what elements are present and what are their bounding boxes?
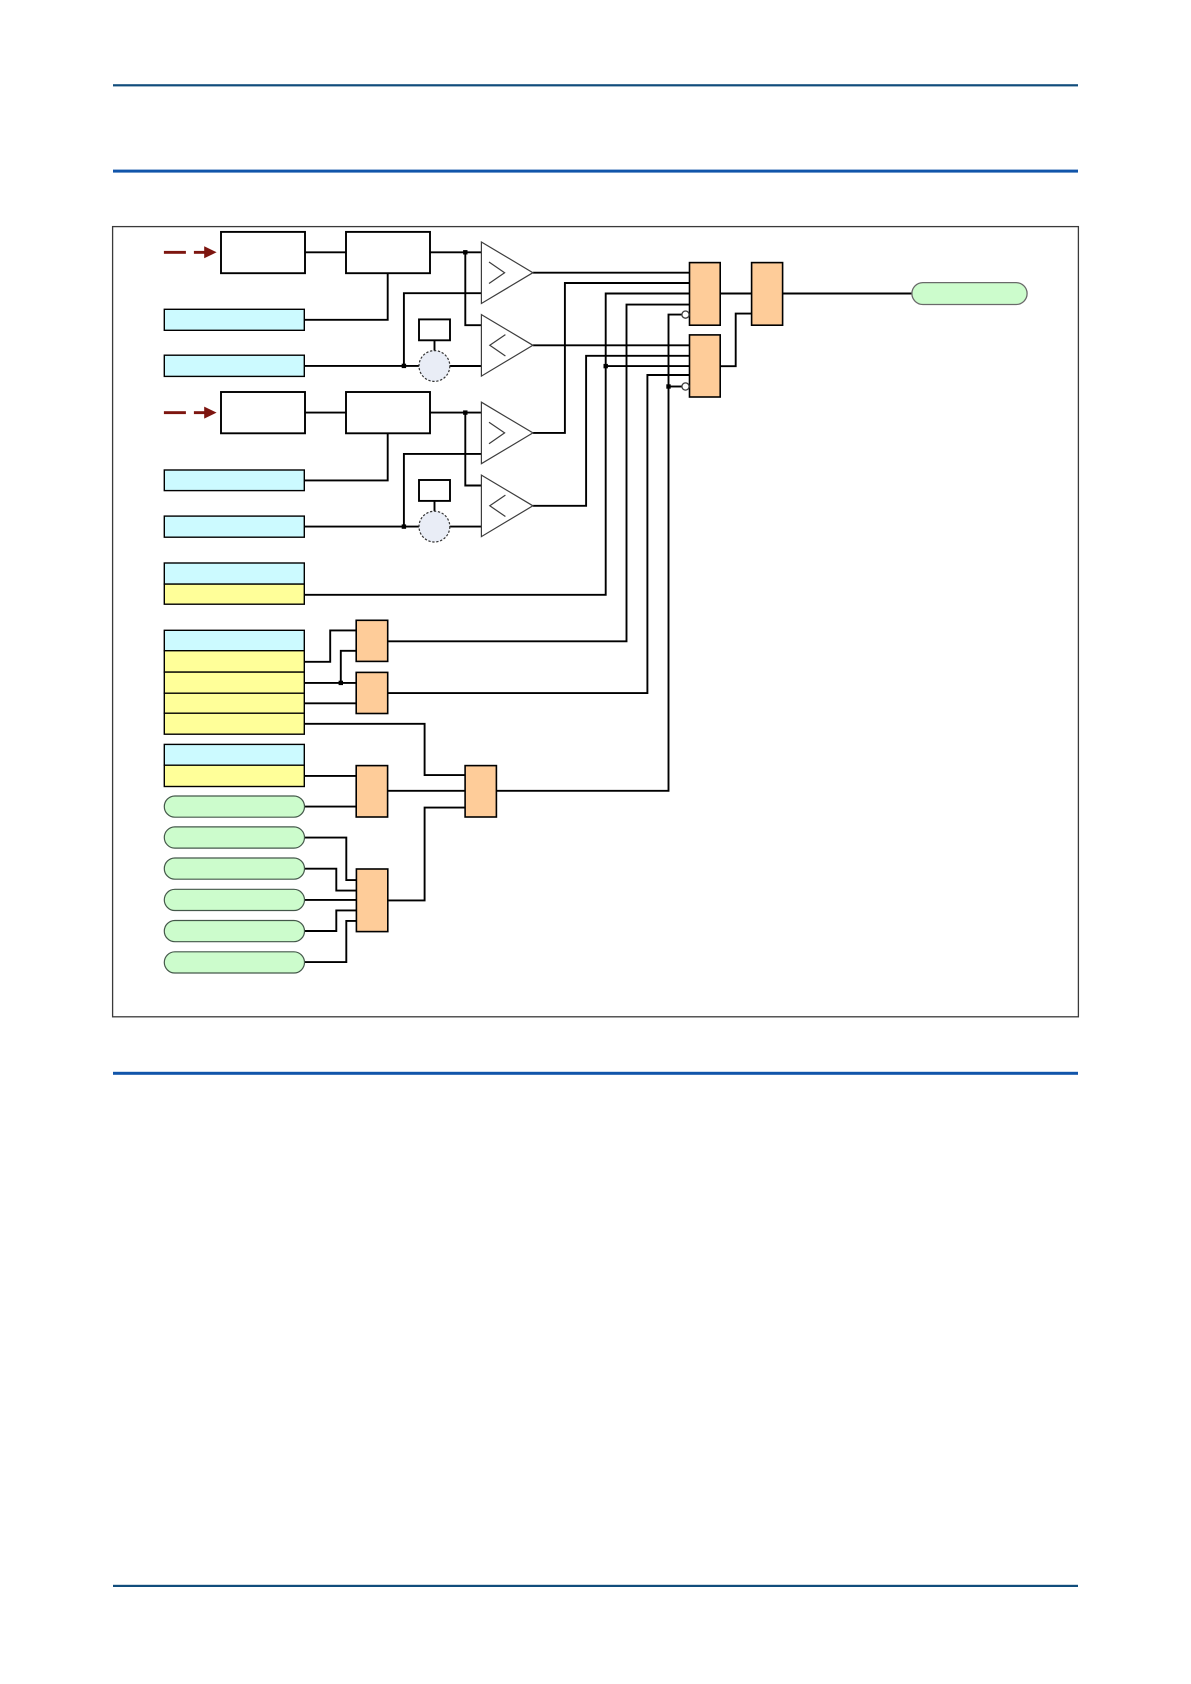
stack cyan row7 [164,630,304,650]
flag pill2 [164,827,304,848]
footer thick blue rule [113,1072,1078,1075]
gate orange3 [752,263,783,326]
junction node 2 [402,364,406,368]
wire comparator3 output bus to orange1 in2 [533,283,690,433]
wire node to comparator 2 top input [465,252,481,325]
wire yellow row8 to orangeA in1 [304,630,356,661]
wire box2 to comparator 1 [430,251,481,253]
wire orangeD output bus to inverter inputs [496,315,682,791]
result pill [912,283,1027,305]
wire circle2 to comparator 4 [450,526,482,528]
pair2 yellow row13 [164,765,304,786]
diagram frame [113,227,1079,1017]
wire box3 to box4 [305,412,346,414]
wire node to comparator 1 lower input [404,293,482,366]
junction node 3 [463,410,467,414]
box B1 [221,232,305,273]
comparator 1 (greater) [481,242,533,304]
comparator 3 (greater) [481,402,533,464]
wire orange3 output to result pill [783,293,912,295]
wire pill6 to orangeE in5 [305,921,357,962]
wire orangeC output to orangeD in2 [388,790,466,792]
wire node to comparator 4 top input [465,413,481,486]
flag pill6 [164,952,304,973]
register cyan1 [164,309,304,330]
wire cyan1 to box2 bottom [304,273,387,320]
wire yellow row9 to orangeB in1 [304,682,356,684]
wire comparator4 output bus to orange2 in2 [533,356,690,506]
wire pill2 to orangeE in1 [305,838,357,881]
circle2 [419,511,450,542]
wire comparator2 output to orange2 in1 [533,344,690,346]
wire yellow row13 to orangeC in1 [304,775,356,777]
inverter bubble orange2 [682,383,689,390]
arrow input 1 [164,246,217,258]
gate orangeE [356,869,387,932]
junction node 1 [463,250,467,254]
wire pill4 to orangeE in3 [305,899,357,901]
comparator 4 (less) [481,475,533,536]
wire pill3 to orangeE in2 [305,869,357,891]
wire node to comparator 3 lower input [404,454,482,527]
arrow input 2 [164,407,217,419]
box B2 [346,232,430,273]
junction node 6 [666,384,670,388]
pair2 cyan row12 [164,744,304,765]
stack yellow row9 [164,672,304,693]
wire yellow row11 to orangeD in1 [304,724,465,775]
flag pill4 [164,889,304,910]
wire box1 to box2 [305,251,346,253]
flag pill1 [164,796,304,817]
wire orange2 output to orange3 in2 [720,314,751,367]
stack yellow row11 [164,713,304,734]
wire comparator1 output to orange1 in1 [533,272,690,274]
wire smallbox2 to circle2 [434,501,436,511]
wire orangeE output to orangeD in3 [388,808,465,901]
register cyan3 [164,470,304,491]
smallbox1 [419,319,450,340]
wire node to orange2 inverter [669,386,682,388]
wire orange1 output to orange3 in1 [720,293,751,295]
wire pill1 to orangeC in2 [305,806,357,808]
inverter bubble orange1 [682,311,689,318]
register cyan4 [164,516,304,537]
gate orangeA [356,620,388,661]
register cyan2 [164,355,304,376]
wire smallbox1 to circle1 [434,340,436,350]
wire circle1 to comparator 2 [450,365,482,367]
stack yellow row8 [164,651,304,672]
flag pill5 [164,921,304,942]
wire box4 to comparator 3 [430,412,481,414]
stack yellow row10 [164,693,304,713]
junction node 4 [402,524,406,528]
smallbox2 [419,480,450,501]
header thick blue rule [113,170,1078,173]
gate orangeB [356,672,388,713]
wire cyan4 to circle2 [304,526,419,528]
box B4 [346,392,430,433]
gate orange2 [690,335,721,397]
header thin blue rule [113,84,1078,86]
wire branch to orange2 in3 [606,365,690,367]
wire branch to orangeA in2 [341,651,356,683]
junction node 7 [339,681,343,685]
footer thin blue rule [113,1585,1078,1587]
box B3 [221,392,305,433]
wire orangeA output bus to orange1 in4 [388,305,690,642]
pair1 cyan row5 [164,563,304,584]
wire cyan2 to circle1 [304,365,419,367]
gate orange1 [690,263,721,326]
wire cyan3 to box4 bottom [304,433,387,480]
gate orangeD [465,766,496,817]
comparator 2 (less) [481,315,533,377]
wire yellow row6 bus to orange1 in3 [304,294,689,595]
wire pill5 to orangeE in4 [305,910,357,931]
flag pill3 [164,858,304,879]
circle1 [419,351,450,382]
wire yellow row10 to orangeB in2 [304,702,356,704]
gate orangeC [356,766,387,817]
wire orangeB output bus to orange2 in4 [388,375,690,693]
pair1 yellow row6 [164,584,304,604]
junction node 5 [604,364,608,368]
